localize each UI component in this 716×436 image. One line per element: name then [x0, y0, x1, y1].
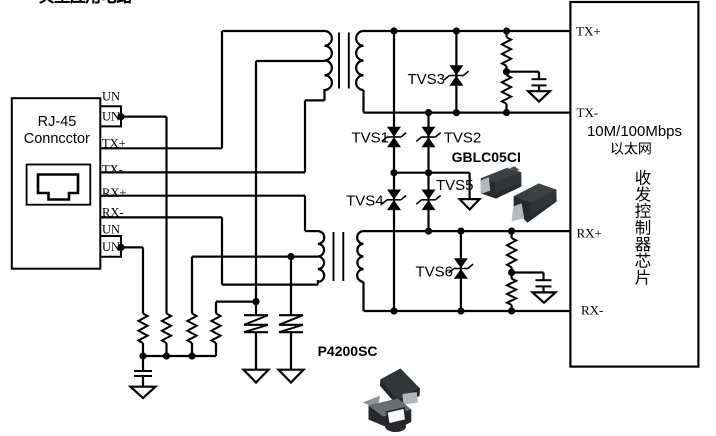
- svg-text:RX+: RX+: [577, 225, 602, 240]
- svg-text:TX+: TX+: [102, 137, 126, 151]
- svg-text:RX-: RX-: [581, 303, 603, 318]
- svg-text:TVS6: TVS6: [415, 263, 453, 280]
- svg-text:RJ-45: RJ-45: [38, 114, 77, 130]
- svg-text:TX-: TX-: [577, 105, 599, 120]
- svg-text:Conncctor: Conncctor: [24, 131, 90, 147]
- svg-text:TX-: TX-: [102, 163, 123, 177]
- svg-text:TX+: TX+: [576, 24, 601, 39]
- svg-text:TVS2: TVS2: [444, 130, 482, 147]
- svg-text:RX-: RX-: [102, 206, 124, 220]
- svg-text:RX+: RX+: [102, 186, 126, 200]
- svg-text:TVS5: TVS5: [436, 177, 474, 194]
- svg-text:TVS1: TVS1: [351, 130, 389, 147]
- svg-text:TVS3: TVS3: [407, 71, 445, 88]
- svg-text:UN: UN: [102, 223, 120, 237]
- svg-text:P4200SC: P4200SC: [318, 343, 378, 359]
- svg-text:10M/100Mbps: 10M/100Mbps: [587, 123, 682, 140]
- svg-text:UN: UN: [102, 89, 120, 103]
- svg-text:TVS4: TVS4: [346, 192, 384, 209]
- svg-text:UN: UN: [102, 240, 120, 254]
- svg-text:UN: UN: [102, 110, 120, 124]
- svg-text:GBLC05CI: GBLC05CI: [452, 149, 521, 165]
